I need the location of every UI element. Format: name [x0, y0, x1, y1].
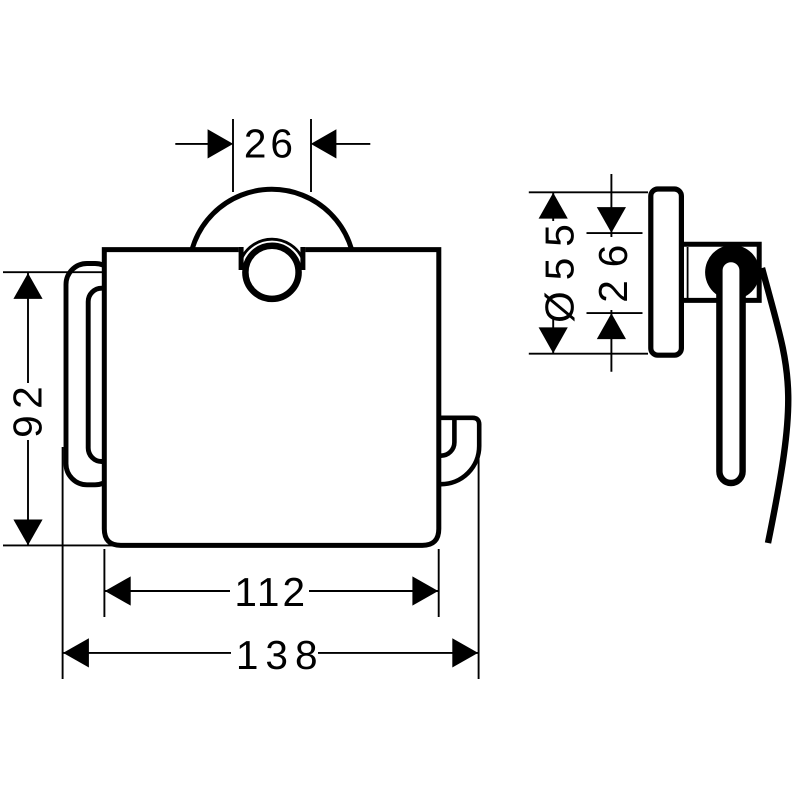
svg-text:138: 138	[236, 632, 325, 678]
svg-text:26: 26	[244, 121, 297, 167]
svg-text:Ø55: Ø55	[537, 213, 583, 323]
svg-text:112: 112	[234, 569, 308, 615]
svg-text:26: 26	[590, 232, 636, 303]
svg-text:92: 92	[5, 380, 51, 438]
